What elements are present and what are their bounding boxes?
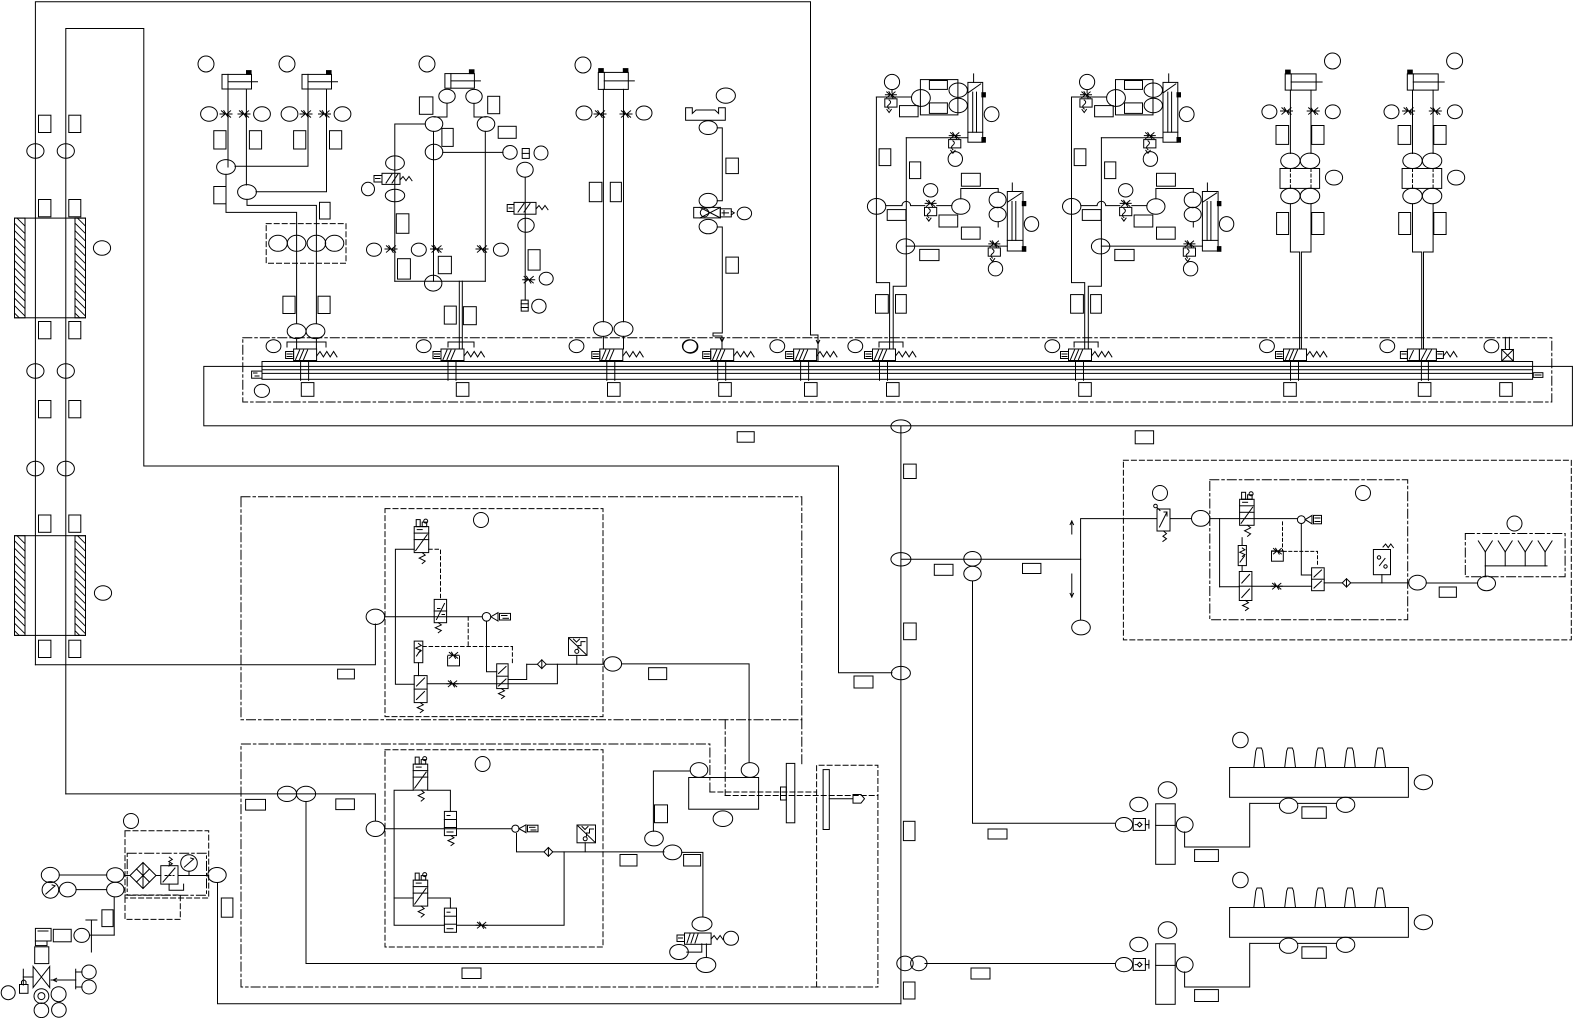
tag dist feed D1 [1195, 850, 1219, 862]
manifold left port [252, 371, 262, 378]
wire R2 out [1220, 586, 1240, 588]
wire B cyl1 bottom [1101, 137, 1163, 139]
balloon block1 out [604, 657, 622, 671]
balloon B block right top [1144, 83, 1162, 97]
balloon dist D2 right [1414, 915, 1432, 930]
stopper cylinder B1 [1163, 82, 1178, 142]
balloon block2 out [663, 845, 682, 860]
tag C7 d [1434, 213, 1446, 235]
manifold valve V5 [786, 352, 794, 359]
manifold valve V6 [865, 352, 873, 359]
balloon cylinder C2 [279, 56, 295, 72]
balloon LV left low [670, 945, 689, 960]
tag block2 out L [620, 855, 637, 867]
tag A m2 [939, 215, 958, 227]
stopper cylinder A1 [968, 82, 983, 142]
cylinder C3 [445, 74, 475, 89]
balloon drain 1 [51, 987, 66, 1002]
balloon C6 block side [1325, 170, 1342, 185]
balloon cylinder C3 [419, 56, 435, 72]
tag A m4 [961, 227, 980, 239]
balloon right block tag 1 [1153, 486, 1168, 501]
block1 valve P3 [414, 676, 427, 703]
capped tee [90, 920, 92, 952]
tag lower valve feed [462, 968, 481, 979]
balloon exh branch top [517, 162, 533, 177]
manifold right port [1533, 373, 1543, 378]
wire C2 ports [235, 89, 308, 166]
manifold valve V4 [703, 352, 711, 359]
balloon dist D2 b2 [1336, 937, 1354, 952]
balloon node branch [891, 553, 911, 566]
tag A top [900, 106, 919, 117]
inlet nipple [53, 929, 71, 942]
tag B drop R [1091, 295, 1102, 314]
balloon C7 below block L [1403, 188, 1422, 203]
tag right out [1439, 587, 1456, 597]
balloon fc C4 L [576, 106, 592, 120]
tag G1 line2 [320, 202, 331, 219]
balloon A junction big [867, 199, 885, 215]
balloon C7 block side [1448, 170, 1465, 185]
balloon dist D1 right [1414, 775, 1432, 790]
wire block1 main [385, 616, 483, 618]
balloon C6 below block L [1281, 188, 1300, 203]
wire A top line [876, 96, 911, 98]
tag dist feed 2 [971, 968, 990, 979]
balloon cylinder C7 [1447, 53, 1463, 69]
right block inner (dash-dot) [1210, 480, 1408, 620]
X blocking valve [694, 207, 721, 218]
balloon C6 fc R [1325, 105, 1340, 119]
wire G2 left branch [395, 124, 425, 281]
balloon below bracket [699, 121, 717, 135]
flow controls C2 [300, 111, 312, 118]
tag A riser2 [910, 162, 921, 179]
wire A second riser [893, 138, 906, 349]
flow control A3 [925, 200, 936, 206]
inlet valve 3/2 hand [1157, 509, 1170, 531]
junction box (dashed) [266, 224, 346, 264]
flow control A4 [989, 241, 1000, 247]
balloon C6 below block R [1300, 188, 1319, 203]
manifold mounting pad [301, 383, 314, 397]
balloon riser2 [57, 144, 74, 159]
balloon valve V1 [266, 340, 281, 353]
balloon dist D1 b2 [1336, 797, 1354, 812]
balloon inlet [74, 928, 90, 942]
manifold mounting pad [1500, 383, 1513, 397]
balloon PS out [1409, 575, 1427, 590]
balloon G2 node R [477, 117, 495, 132]
wire to quick exhaust 2 [553, 851, 664, 853]
balloon B mid [1147, 199, 1165, 215]
balloon block1 inlet [366, 609, 385, 624]
flow controls C7 [1403, 108, 1415, 115]
balloon [334, 107, 351, 121]
tag G1 drop B [318, 296, 330, 313]
balloon A block left [912, 90, 931, 107]
wire A cyl1 bottom [906, 137, 968, 139]
manifold valve V7 [1061, 352, 1069, 359]
tag block2 out R [684, 855, 701, 867]
wire C1 ports [227, 89, 229, 167]
wire B top stem [1086, 90, 1088, 93]
balloon far left [1, 986, 15, 1000]
balloon S1 side [362, 182, 375, 195]
wire R3 out [1324, 582, 1342, 584]
wire: exhaust drop [1080, 559, 1082, 620]
block1 pilot valve P1 [416, 520, 420, 527]
wire block2 bus [394, 790, 444, 925]
balloon X-valve [1484, 340, 1499, 353]
block1 inner box (dashed) [385, 509, 603, 717]
balloon fc exh [539, 272, 553, 285]
right check glyph [1305, 515, 1312, 523]
wire dist D2 feed [1250, 942, 1279, 944]
tag dist D1 [1302, 807, 1326, 819]
balloon in junction box [325, 235, 344, 251]
balloon valve V7 [1045, 340, 1060, 353]
wire: pilot arrow into manifold valve V5 [816, 340, 819, 344]
balloon drain 3 [52, 1003, 67, 1018]
wire block1 output [622, 664, 750, 763]
balloon valve V8 [1260, 340, 1275, 353]
padlock [20, 985, 29, 994]
dashed pilot net [467, 617, 469, 647]
distribution manifold D2 [1230, 908, 1409, 938]
wire branch down [1219, 519, 1221, 587]
tag riser2 [69, 322, 81, 339]
outlet D2 [1315, 888, 1326, 908]
balloon A cyl2 side [1024, 217, 1038, 232]
block1 valve P4 [497, 664, 508, 689]
balloon B cyl2 bottom [1184, 207, 1201, 221]
wire check down [517, 834, 544, 852]
outlet D1 [1345, 748, 1356, 768]
balloon in junction box [269, 235, 288, 251]
tag C1a [214, 131, 226, 149]
right block valve R1 [1242, 492, 1246, 499]
wire right block main [1170, 518, 1192, 520]
balloon bleed R [534, 146, 548, 160]
wire A mid line [886, 201, 925, 205]
outlet D1 [1254, 748, 1265, 768]
check valve D1 [1133, 819, 1145, 831]
tag riser1 [39, 640, 51, 657]
balloon FRL in top [107, 868, 124, 883]
balloon right block tag 2 [1356, 486, 1371, 501]
outlet D2 [1285, 888, 1296, 908]
balloon block1 tag [474, 513, 489, 528]
balloon dist D1 b1 [1279, 798, 1297, 813]
wire: right block inlet corner [1081, 519, 1156, 560]
balloon dryer D2 out [1176, 957, 1193, 972]
wire block2 output [682, 852, 703, 916]
tag FRL out [221, 898, 233, 917]
tag manifold out 1 [737, 432, 754, 443]
balloon fc3 [493, 243, 508, 256]
flow control A2 [949, 133, 960, 139]
block2 valve V2 [444, 811, 456, 835]
balloon pair stacked 2 [964, 566, 981, 581]
flow control B3 [1120, 200, 1131, 206]
balloon [254, 107, 271, 121]
drain port concentric [34, 989, 49, 1004]
interface block C7 [1402, 169, 1442, 189]
outlet D1 [1375, 748, 1386, 768]
manifold mounting pad [1284, 383, 1297, 397]
manifold valve V9 [1400, 352, 1407, 359]
wire C6 lines upper [1289, 90, 1291, 153]
balloon dryer D1 top [1158, 782, 1177, 798]
FRL gauge [181, 855, 198, 872]
tag G1 drop A [283, 296, 295, 313]
silencer rail [1485, 565, 1547, 567]
balloon supply L [41, 867, 59, 882]
wire B stub [1192, 222, 1194, 227]
block2 valve V3 [444, 908, 456, 932]
balloon gripper L [690, 763, 708, 778]
tag riser1 [39, 515, 51, 532]
tag A m1 [887, 210, 906, 221]
cylinder C7 [1407, 74, 1438, 90]
balloon C4 bottom R [614, 322, 633, 337]
tag bottom trunk [246, 799, 266, 810]
balloon dryer D2 left [1130, 937, 1148, 951]
manifold mounting pad [1418, 383, 1431, 397]
outlet D1 [1315, 748, 1326, 768]
balloon above X valve [699, 193, 717, 207]
tag B m3 [1157, 173, 1176, 186]
wire LV stem [705, 944, 707, 958]
tag below fc1 [398, 259, 411, 279]
right regulator [1238, 546, 1246, 566]
wire: main supply riser 2 [66, 29, 892, 794]
tag B drop L [1071, 295, 1084, 314]
wire B to cyl2 [1156, 189, 1193, 199]
balloon mid node 2 [425, 144, 443, 159]
right block valve R2 [1239, 572, 1252, 601]
tag C2a [294, 131, 306, 149]
balloon C6 fc L [1262, 105, 1277, 119]
balloon slide C5 [716, 88, 735, 103]
balloon bottom node 2 [911, 956, 927, 971]
exhaust silencer [1504, 552, 1506, 566]
tag C2b [330, 131, 342, 149]
balloon G1 manifold A [287, 324, 306, 339]
FRL regulator [161, 866, 178, 884]
tag riser1 [39, 401, 51, 418]
balloon dist D2 tag [1233, 872, 1249, 888]
balloon service2 [94, 586, 111, 601]
balloon A block right bottom [949, 98, 967, 112]
balloon riser2 [57, 461, 74, 476]
tag block1 feed [338, 669, 355, 679]
balloon FRL in bottom [107, 882, 124, 897]
tag main vertical 1 [904, 464, 917, 478]
wire bleed branch [443, 151, 503, 153]
tag riser2 [69, 115, 81, 132]
balloon C7 fc R [1447, 105, 1462, 119]
vent arrow [51, 979, 76, 981]
balloon valve V4 [682, 340, 697, 353]
inlet pipe section [35, 947, 49, 964]
balloon below X valve [699, 219, 717, 233]
block2 check [544, 848, 553, 857]
balloon silencer [1507, 516, 1522, 531]
valve S1 (hand 3/2) [382, 173, 400, 184]
balloon valve V5 [770, 340, 785, 353]
balloon A cyl1 side [984, 107, 999, 122]
wire silencer stem [1484, 566, 1486, 576]
tag gripper A [655, 805, 668, 823]
balloon [201, 107, 218, 121]
tag C7 a [1398, 126, 1411, 145]
tag riser1 [39, 115, 51, 132]
flow control right [1272, 551, 1284, 561]
wire: main supply riser 1 (left) [35, 2, 818, 665]
supply gauge [42, 882, 59, 899]
balloon C7 below block R [1422, 188, 1441, 203]
FRL inner (dash-dot) [127, 853, 206, 895]
balloon FRL tag [124, 814, 139, 829]
manifold mounting pad [1079, 383, 1092, 397]
balloon node B [891, 666, 910, 679]
balloon block2 node up [645, 831, 664, 846]
balloon exhaust [1072, 620, 1091, 635]
balloon G4 manifold [683, 340, 698, 353]
wire A mid line 2 [937, 205, 952, 207]
block1 pilot flow control [448, 652, 459, 658]
balloon riser2 [57, 364, 74, 379]
manifold valve V1 [286, 352, 294, 359]
wire B second riser [1088, 138, 1101, 349]
balloon A mid [952, 199, 970, 215]
mini bleed valve [522, 149, 529, 159]
tag C4 a [589, 182, 602, 201]
inlet elbow [35, 928, 51, 941]
small balloon pilot [1297, 516, 1305, 524]
gripper finger 1 [786, 763, 795, 822]
balloon B fc3 top [1119, 184, 1133, 197]
cylinder C1 [222, 74, 252, 89]
distribution manifold D1 [1230, 768, 1409, 798]
balloon B fc2 [1143, 152, 1157, 167]
balloon valve V3 [569, 340, 584, 353]
block1 relief P2 [414, 641, 423, 663]
balloon LV bottom [696, 958, 716, 973]
wire: lower distribution feed [925, 963, 1115, 965]
tag B bottom [1115, 249, 1134, 260]
balloon G2 node L [425, 117, 443, 132]
tag C3 a [419, 97, 433, 114]
wire into V3 [602, 336, 604, 349]
balloon left branch [386, 156, 405, 170]
valve block B [1116, 80, 1154, 115]
tag riser2 [69, 200, 81, 217]
manifold base plate [204, 366, 1573, 425]
balloon B cyl1 side [1179, 107, 1194, 122]
balloon LV top [692, 917, 712, 931]
balloon bleed L [503, 146, 517, 160]
balloon riser1 [27, 144, 44, 159]
wire: branch to right block [901, 558, 1081, 560]
wire: bottom distribution from riser 2 [66, 794, 376, 821]
wire A bottom line [906, 245, 1007, 247]
tag C6 c [1277, 213, 1289, 235]
tag main vertical 2 [904, 623, 917, 640]
tag G4 a [726, 158, 739, 174]
manifold mounting pad [719, 383, 732, 397]
tag A m3 [961, 173, 980, 186]
tag C7 c [1399, 213, 1411, 235]
dashed link fc [1283, 551, 1317, 566]
balloon vent 1 [82, 965, 96, 979]
balloon dryer D1 left [1130, 797, 1148, 811]
balloon cylinder C6 [1325, 53, 1341, 69]
balloon dryer D2 top [1158, 922, 1177, 938]
wire into V1 [296, 339, 298, 349]
manifold mounting pad [805, 383, 818, 397]
FRL filter [130, 863, 156, 889]
balloon valve V9 [1380, 340, 1395, 353]
balloon riser1 [27, 364, 44, 379]
tag G1 line [214, 187, 226, 204]
block2 enclosure (dash-dot) [241, 744, 878, 987]
balloon group B top [1080, 74, 1095, 89]
pressure switch [1373, 550, 1390, 575]
wire FRL main [124, 875, 130, 877]
gripper cylinder [689, 778, 759, 810]
valve handle [23, 976, 33, 978]
block2 pilot check [512, 825, 519, 832]
wire B top line [1072, 96, 1107, 98]
wire C3 R [474, 103, 486, 117]
balloon below S1 [385, 189, 404, 202]
wire: branch to upper distribution manifold [973, 582, 1115, 824]
tag bottom trunk 2 [336, 799, 355, 810]
manifold rail [262, 362, 1533, 380]
balloon fc2 [411, 243, 426, 256]
regulator to R2 neck [1241, 566, 1243, 572]
tag right [498, 126, 516, 138]
balloon A fc2 [948, 152, 962, 167]
balloon right of X valve [737, 207, 751, 220]
balloon C3 port R [466, 89, 482, 103]
tag main vertical 4 [903, 982, 915, 999]
balloon B fc4 [1183, 262, 1197, 276]
manifold valve V3 [592, 352, 600, 359]
balloon vent 2 [82, 980, 96, 994]
manifold mounting pad [608, 383, 621, 397]
silencer [521, 300, 528, 311]
balloon riser1 [27, 461, 44, 476]
manifold valve V8 [1276, 352, 1284, 359]
wire P3 out [427, 664, 557, 684]
silencer box (dashed) [1465, 534, 1565, 577]
block2 quick exhaust [577, 825, 596, 843]
gripper finger 2 [823, 770, 829, 830]
balloon valve V6 [848, 340, 863, 353]
lower pilot valve LV [685, 933, 712, 944]
balloon junction G1a [217, 160, 236, 175]
balloon C6 above block L [1281, 153, 1300, 168]
air dryer D2 [1156, 944, 1176, 1005]
tag A drop R [896, 295, 907, 314]
wire PS balloon to silencer [1426, 582, 1477, 584]
manifold mounting pad [887, 383, 900, 397]
